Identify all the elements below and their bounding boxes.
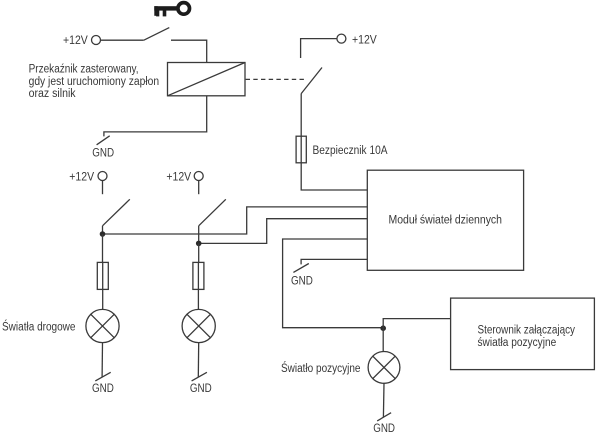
wire module pin4 to junction C bbox=[283, 239, 384, 328]
svg-text:światła pozycyjne: światła pozycyjne bbox=[478, 337, 557, 349]
wire junction A down to fuse F1 bbox=[102, 234, 104, 262]
lamp L2 (Światła drogowe right) bbox=[182, 309, 215, 342]
wire terminal to switch S1 bbox=[101, 39, 144, 41]
controller U2 box (Sterownik) bbox=[451, 298, 595, 370]
switch S4 blade (lamp2) bbox=[199, 199, 226, 226]
fuse F2 body bbox=[193, 262, 204, 289]
svg-text:GND: GND bbox=[373, 423, 395, 434]
svg-text:+12V: +12V bbox=[69, 172, 94, 184]
svg-text:Bezpiecznik 10A: Bezpiecznik 10A bbox=[313, 145, 388, 157]
svg-text:+12V: +12V bbox=[166, 172, 191, 184]
wire switch S2 to fuse F3 bbox=[300, 94, 302, 137]
lamp L3 (Światło pozycyjne) bbox=[368, 352, 400, 384]
terminal circle +12V ignition bbox=[92, 36, 101, 45]
module U1 box (Moduł świateł dziennych) bbox=[367, 170, 523, 270]
wire lamp L1 to ground bbox=[101, 343, 103, 378]
ground slash (lamp L2) bbox=[192, 372, 207, 381]
wire through fuse F3 bbox=[300, 136, 302, 163]
svg-text:GND: GND bbox=[92, 147, 114, 159]
switch S1 blade (ignition switch) bbox=[144, 28, 170, 41]
lamp L1 (Światła drogowe left) bbox=[86, 309, 119, 342]
wire junction C to controller U2 bbox=[383, 319, 450, 329]
wire junction B down to fuse F2 bbox=[198, 243, 200, 262]
ground slash (lamp L1) bbox=[95, 372, 110, 381]
wire stub below terminal 1 bbox=[102, 181, 104, 195]
relay K1 diagonal bbox=[168, 63, 246, 96]
ground slash (module) bbox=[293, 264, 308, 273]
svg-text:gdy jest uruchomiony zapłon: gdy jest uruchomiony zapłon bbox=[29, 76, 160, 88]
wire module pin3 to junction B bbox=[201, 219, 367, 244]
svg-text:+12V: +12V bbox=[63, 35, 88, 47]
dashed control link relay to switch S2 bbox=[246, 78, 305, 80]
wire terminal to switch S2 bbox=[301, 39, 337, 58]
switch S2 blade (relay contact) bbox=[301, 68, 322, 94]
junction C dot bbox=[380, 325, 386, 331]
wire module pin5 to ground bbox=[301, 259, 367, 264]
terminal circle +12V battery bbox=[337, 34, 346, 43]
fuse F1 body bbox=[97, 262, 108, 289]
svg-text:+12V: +12V bbox=[352, 34, 377, 46]
wire fuse F3 to module U1 bbox=[301, 163, 367, 190]
key icon (ignition) bbox=[154, 3, 189, 17]
junction B dot bbox=[196, 241, 202, 247]
wire stub below terminal 2 bbox=[198, 181, 200, 195]
svg-text:Światła drogowe: Światła drogowe bbox=[2, 321, 76, 334]
ground slash (lamp L3) bbox=[377, 413, 391, 421]
wire junction C to lamp L3 bbox=[382, 328, 384, 351]
wire blade to junction A bbox=[102, 226, 104, 234]
svg-text:GND: GND bbox=[92, 383, 114, 395]
svg-text:oraz silnik: oraz silnik bbox=[29, 88, 76, 100]
svg-text:GND: GND bbox=[190, 383, 212, 395]
switch S3 blade (lamp1) bbox=[103, 199, 130, 226]
svg-text:Światło pozycyjne: Światło pozycyjne bbox=[281, 362, 361, 375]
relay K1 body bbox=[168, 63, 246, 96]
junction A dot bbox=[100, 231, 106, 237]
wire blade to junction B bbox=[198, 226, 200, 244]
wire relay K1 to ground bbox=[104, 96, 207, 137]
svg-text:Sterownik załączający: Sterownik załączający bbox=[478, 325, 576, 337]
svg-text:Przekaźnik zasterowany,: Przekaźnik zasterowany, bbox=[29, 63, 139, 75]
wire lamp L2 to ground bbox=[197, 343, 199, 378]
wire fuse F1 to lamp L1 bbox=[102, 262, 104, 309]
wire fuse F2 to lamp L2 bbox=[197, 262, 199, 309]
svg-text:Moduł świateł dziennych: Moduł świateł dziennych bbox=[389, 215, 503, 227]
wire module pin2 to junction A bbox=[105, 207, 367, 234]
wire lamp L3 to ground bbox=[382, 383, 385, 417]
terminal circle +12V lamp1 bbox=[98, 172, 107, 181]
svg-text:GND: GND bbox=[291, 275, 313, 287]
ground slash (relay) bbox=[97, 136, 110, 145]
fuse F3 body (Bezpiecznik 10A) bbox=[296, 136, 306, 163]
terminal circle +12V lamp2 bbox=[194, 172, 203, 181]
wire switch to relay K1 top bbox=[171, 40, 207, 62]
